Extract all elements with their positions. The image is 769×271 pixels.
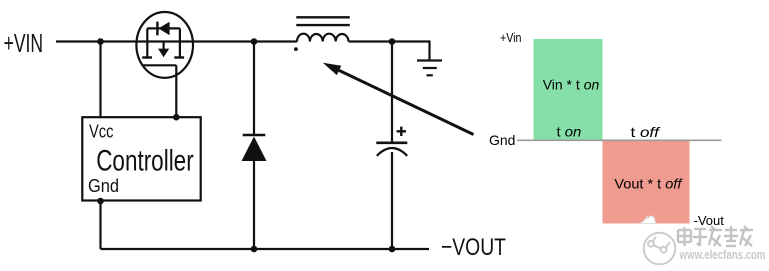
transistor Q1 substrate arrowhead (points down) xyxy=(158,49,169,58)
svg-text:Controller: Controller xyxy=(96,145,194,178)
diode D1 anode wire from top rail xyxy=(253,42,255,137)
char 1 dian xyxy=(678,229,691,231)
char 4 shao xyxy=(725,229,737,231)
diode D1 triangle (points up) xyxy=(242,137,267,162)
capacitor C1 curved bottom plate xyxy=(377,148,407,156)
wire source-drain rail through Q1 xyxy=(136,40,193,42)
junction diode tap on top rail xyxy=(251,38,258,45)
watermark logo circle xyxy=(644,233,676,265)
annotation arrow pointing at inductor xyxy=(339,70,474,134)
char 2 zi xyxy=(694,228,706,230)
char 3 fa xyxy=(709,229,722,231)
wire diode D1 to bottom rail xyxy=(253,161,255,249)
wire capacitor bottom lead xyxy=(391,152,393,249)
wire ground stub vertical xyxy=(428,40,430,60)
waveform green area Vin*ton xyxy=(534,39,603,140)
junction capacitor tap on top rail xyxy=(389,38,396,45)
svg-text:t off: t off xyxy=(631,124,662,140)
svg-text:+Vin: +Vin xyxy=(500,30,522,45)
waveform red area Vout*toff xyxy=(603,140,690,224)
wire Vcc supply drop to controller xyxy=(99,42,101,118)
svg-text:Vout * t off: Vout * t off xyxy=(614,176,683,192)
inductor L1 phasing dot xyxy=(294,47,298,51)
transistor Q1 body diode arrow (points left) xyxy=(158,22,169,35)
char 5 you xyxy=(740,229,753,231)
wire capacitor top lead xyxy=(391,42,393,143)
svg-text:Gnd: Gnd xyxy=(489,132,515,148)
diode D1 cathode bar xyxy=(243,134,266,137)
inductor L1 winding humps xyxy=(297,34,349,42)
transistor Q1 right leg xyxy=(179,28,181,57)
transistor Q1 gate electrode line xyxy=(142,64,176,66)
waveform Gnd axis line xyxy=(517,139,722,141)
svg-text:+VIN: +VIN xyxy=(4,30,44,58)
wire +VIN input rail (left segment) xyxy=(56,40,137,42)
junction controller Gnd on box bottom edge xyxy=(97,198,104,205)
transistor Q1 body diode cathode bar xyxy=(156,22,158,36)
svg-text:−VOUT: −VOUT xyxy=(441,234,506,261)
wire rail Q1 to inductor xyxy=(193,40,297,42)
controller U1 box xyxy=(82,117,200,200)
ground symbol bar 1 xyxy=(417,59,442,61)
transistor Q1 top body-diode bar line xyxy=(147,27,180,29)
svg-text:Vin * t on: Vin * t on xyxy=(543,77,600,93)
inductor L1 core line upper xyxy=(296,16,350,18)
transistor Q1 right channel contact foot xyxy=(174,56,184,58)
transistor Q1 left channel contact foot xyxy=(142,56,152,58)
svg-text:Gnd: Gnd xyxy=(88,176,119,196)
svg-text:www.elecfans.com: www.elecfans.com xyxy=(679,247,766,262)
wire Q1 gate lead down to controller xyxy=(175,65,177,117)
watermark logo flame notch over red area xyxy=(640,216,656,224)
wire -VOUT bottom rail xyxy=(101,248,430,250)
svg-text:t on: t on xyxy=(557,124,582,140)
transistor Q1 left leg xyxy=(146,28,148,57)
inductor L1 core line lower xyxy=(296,24,350,26)
wire controller Gnd down to -VOUT rail xyxy=(99,201,101,250)
capacitor C1 top plate xyxy=(376,142,407,145)
ground symbol bar 3 xyxy=(427,74,433,76)
junction Vcc tap on +VIN rail xyxy=(97,38,104,45)
svg-text:Vcc: Vcc xyxy=(89,122,114,142)
junction gate lead on controller top edge xyxy=(173,114,180,121)
watermark pseudo hanzi strokes xyxy=(678,226,753,246)
transistor Q1 P-MOSFET envelope circle xyxy=(136,12,193,78)
transistor Q1 substrate arrow shaft xyxy=(163,42,165,51)
wire inductor to ground corner xyxy=(349,40,430,42)
ground symbol bar 2 xyxy=(423,67,437,69)
capacitor C1 polarity plus sign xyxy=(397,130,406,132)
svg-text:-Vout: -Vout xyxy=(694,213,725,228)
junction capacitor on bottom rail xyxy=(389,246,396,253)
junction diode on bottom rail xyxy=(251,246,258,253)
